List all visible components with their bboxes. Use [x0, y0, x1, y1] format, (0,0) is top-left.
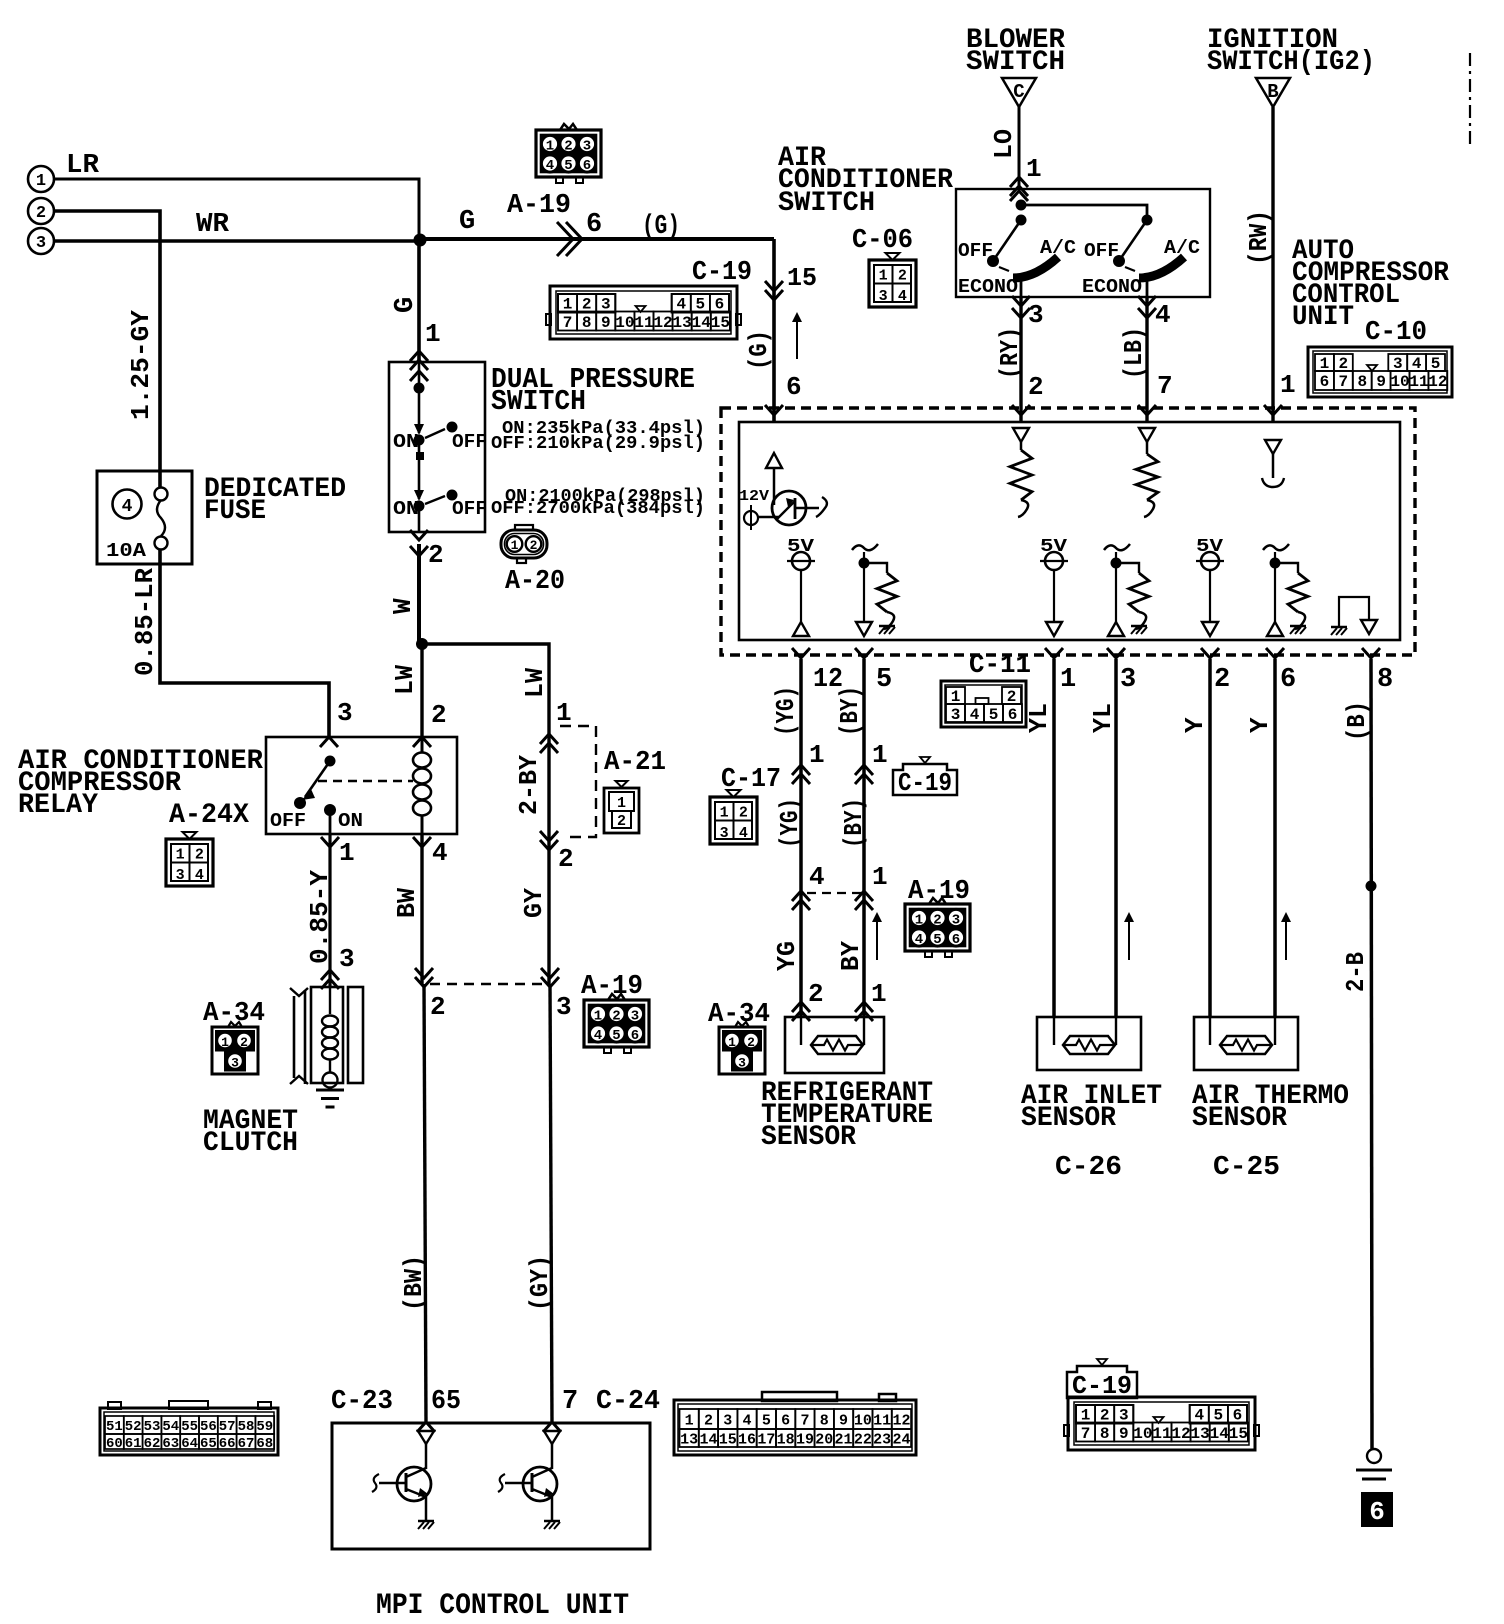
label A-24X	[169, 800, 249, 831]
svg-text:SWITCH: SWITCH	[778, 188, 875, 219]
svg-text:8: 8	[582, 314, 592, 332]
svg-text:52: 52	[125, 1419, 142, 1435]
label A-19 (sensor)	[908, 877, 970, 907]
label 3 (AC switch pin)	[1028, 300, 1044, 330]
label C-25	[1213, 1153, 1280, 1183]
label 0.85-LR (rotated)	[130, 568, 160, 676]
svg-text:1: 1	[176, 847, 185, 864]
label A-19 (mid)	[581, 972, 643, 1002]
ground bracket (pin 8)	[1331, 597, 1377, 635]
label G	[459, 207, 475, 237]
svg-text:(G): (G)	[744, 330, 774, 370]
svg-text:6: 6	[1320, 373, 1330, 391]
wire 0.85-Y relay to magnet clutch	[328, 834, 331, 987]
svg-text:C-24: C-24	[596, 1387, 660, 1417]
svg-text:1: 1	[511, 538, 519, 553]
svg-text:3: 3	[337, 698, 353, 728]
label (BY) upper rotated	[835, 686, 865, 736]
svg-text:(B): (B)	[1342, 701, 1372, 741]
svg-text:2-B: 2-B	[1341, 952, 1371, 992]
label (RW) rotated	[1244, 210, 1274, 265]
DPS middle node	[416, 444, 424, 499]
label 3 (relay pin)	[337, 698, 353, 728]
svg-text:68: 68	[256, 1436, 273, 1452]
DPS switch 1 OFF contact	[447, 422, 488, 454]
wire Y (pin 2 to air thermo sensor)	[1208, 659, 1212, 1017]
svg-text:3: 3	[36, 234, 46, 253]
label 2 (DPS pin)	[428, 540, 444, 570]
wire Y (pin 6 to air thermo sensor)	[1273, 659, 1277, 1017]
svg-text:C-06: C-06	[852, 226, 913, 256]
connector C-11 (6-pin)	[941, 681, 1026, 727]
arrows BW at A-19	[415, 968, 433, 987]
svg-text:3: 3	[556, 992, 572, 1022]
label (YG) upper rotated	[771, 686, 801, 736]
fuse number circle 4	[113, 490, 142, 519]
label ECONO (pole 2)	[1082, 276, 1142, 298]
label 2 (control unit pin)	[1028, 372, 1044, 402]
label C-26	[1055, 1153, 1122, 1183]
svg-text:8: 8	[1357, 373, 1367, 391]
arrows into refrigerant sensor pin 2	[792, 1002, 810, 1021]
label 12 (unit pin)	[813, 665, 843, 695]
svg-text:1: 1	[720, 805, 729, 822]
svg-text:55: 55	[181, 1419, 198, 1435]
svg-text:4: 4	[915, 932, 923, 948]
air conditioner compressor relay box	[266, 737, 457, 834]
label 4 (relay pin)	[432, 838, 448, 868]
svg-text:4: 4	[432, 838, 448, 868]
label 2 (relay coil pin)	[431, 700, 447, 730]
label W (rotated)	[388, 598, 418, 614]
svg-text:(G): (G)	[642, 212, 680, 242]
svg-text:59: 59	[256, 1419, 273, 1435]
connector C-06 (4-pin)	[869, 253, 916, 307]
svg-text:4: 4	[1155, 300, 1171, 330]
svg-text:15: 15	[711, 314, 730, 332]
svg-text:C-10: C-10	[1365, 318, 1427, 348]
svg-text:1: 1	[36, 172, 46, 191]
label REFRIGERANT TEMPERATURE SENSOR	[761, 1078, 933, 1153]
DPS wire to pin 2	[418, 510, 421, 532]
label 65 (MPI pin)	[431, 1387, 461, 1417]
svg-text:LO: LO	[989, 129, 1019, 159]
svg-text:SENSOR: SENSOR	[1192, 1103, 1287, 1134]
label OFF:210kPa	[491, 434, 705, 454]
label 3 (A-19 pin)	[556, 992, 572, 1022]
DPS switch 1 ON contact	[393, 431, 425, 453]
arrow into relay pin 3	[320, 737, 338, 747]
svg-text:23: 23	[873, 1432, 891, 1449]
svg-text:3: 3	[231, 1056, 239, 1071]
svg-text:2: 2	[36, 204, 46, 223]
svg-text:15: 15	[787, 263, 817, 293]
wire (G) to control unit pin 6	[772, 239, 776, 422]
node 1 (battery feed LR)	[28, 166, 54, 192]
svg-text:3: 3	[738, 1056, 746, 1071]
svg-text:2: 2	[428, 540, 444, 570]
AC switch pole 1 output wire	[1020, 278, 1023, 297]
svg-text:2: 2	[564, 139, 572, 155]
arrows A-21 pin 2	[540, 831, 558, 850]
svg-text:66: 66	[219, 1436, 236, 1452]
label C-24	[596, 1387, 660, 1417]
connector C-19 (bottom 15-pin)	[1064, 1397, 1259, 1450]
relay blade with arrow	[302, 761, 330, 800]
label 6 (unit pin)	[1280, 665, 1296, 695]
label 2 (unit pin)	[1214, 665, 1230, 695]
svg-text:65: 65	[431, 1387, 461, 1417]
connector A-19 (top 6-pin)	[536, 124, 601, 183]
svg-text:5: 5	[762, 1413, 771, 1430]
label DEDICATED FUSE	[204, 474, 346, 527]
arrows YG crossing 4	[792, 891, 810, 910]
page link triangle C (blower switch)	[1002, 78, 1036, 107]
svg-text:15: 15	[1229, 1425, 1248, 1443]
label 5 (unit pin)	[876, 665, 892, 695]
svg-text:(RY): (RY)	[995, 327, 1025, 379]
svg-text:24: 24	[892, 1432, 910, 1449]
svg-text:OFF: OFF	[270, 810, 306, 832]
svg-text:6: 6	[1369, 1497, 1385, 1527]
svg-text:5: 5	[876, 665, 892, 695]
signal arrow BY	[872, 912, 882, 960]
svg-text:2: 2	[704, 1413, 713, 1430]
label C-06	[852, 226, 913, 256]
svg-text:SWITCH: SWITCH	[966, 47, 1065, 78]
label 1 (DPS pin)	[425, 319, 441, 349]
wire YL (pin 1 to air inlet sensor)	[1052, 659, 1056, 1017]
arrows into refrigerant sensor pin 1	[855, 1002, 873, 1021]
5V source group (pins 12/5 refrigerant sensor)	[787, 537, 897, 636]
arrows GY at A-19	[541, 968, 559, 987]
arrows AC switch pin 1	[1010, 177, 1028, 201]
svg-text:BY: BY	[836, 941, 866, 971]
arrow out of relay pin 4	[413, 837, 431, 847]
arrow out of unit pin 8	[1362, 648, 1380, 658]
svg-text:1: 1	[221, 1035, 229, 1050]
label G (rotated)	[391, 297, 421, 313]
label C-19 (mid boxed)	[893, 757, 957, 798]
fuse element	[155, 488, 168, 550]
svg-text:7: 7	[1157, 371, 1173, 401]
svg-text:12: 12	[1171, 1425, 1190, 1443]
junction dot on B wire	[1366, 881, 1377, 892]
arrow into unit pin 1	[1264, 405, 1282, 415]
svg-text:10: 10	[615, 314, 634, 332]
svg-text:63: 63	[162, 1436, 179, 1452]
label (RY) rotated	[995, 327, 1025, 379]
svg-text:(RW): (RW)	[1244, 210, 1274, 265]
svg-text:5: 5	[989, 706, 999, 724]
svg-text:6: 6	[786, 372, 802, 402]
svg-text:9: 9	[1119, 1425, 1129, 1443]
unit pin 6 triangle	[766, 453, 782, 505]
svg-text:SWITCH: SWITCH	[491, 385, 586, 418]
label 2 (sensor pin)	[808, 979, 824, 1009]
svg-text:OFF:2700kPa(384psl): OFF:2700kPa(384psl)	[491, 499, 705, 519]
svg-text:2: 2	[431, 700, 447, 730]
svg-text:OFF: OFF	[1084, 240, 1119, 262]
svg-text:58: 58	[238, 1419, 255, 1435]
connector A-20 (oval 2-pin)	[501, 525, 547, 563]
wire RY to control unit	[1019, 297, 1022, 422]
svg-text:1: 1	[1026, 154, 1042, 184]
svg-text:A/C: A/C	[1164, 237, 1200, 259]
arrow into unit pin 6	[765, 405, 783, 415]
label GY (rotated)	[519, 888, 549, 918]
wire LR label	[66, 151, 100, 181]
svg-text:A-24X: A-24X	[169, 800, 249, 831]
wire G down to dual pressure switch pin 1	[417, 239, 421, 362]
svg-text:Y: Y	[1245, 717, 1275, 733]
label IGNITION SWITCH(IG2)	[1207, 25, 1375, 78]
wire 2-BY / GY down to MPI	[549, 726, 552, 1423]
svg-text:10: 10	[854, 1413, 872, 1430]
arrow out of unit pin 12	[792, 648, 810, 658]
svg-text:2: 2	[933, 913, 941, 929]
svg-text:SWITCH(IG2): SWITCH(IG2)	[1207, 47, 1375, 78]
svg-text:1: 1	[1280, 370, 1296, 400]
connector C-24 (24-pin)	[674, 1392, 916, 1455]
svg-text:9: 9	[839, 1413, 848, 1430]
label A-34 (refrigerant)	[708, 1000, 770, 1030]
svg-text:4: 4	[546, 158, 554, 174]
label 7 (control unit pin)	[1157, 371, 1173, 401]
AC switch pole 1 OFF contact	[958, 240, 999, 267]
DPS wire internal	[418, 362, 421, 433]
label 1.25-GY (rotated)	[126, 310, 156, 420]
svg-text:11: 11	[1409, 373, 1428, 391]
svg-text:12: 12	[892, 1413, 910, 1430]
arrow out of unit pin 6	[1266, 648, 1284, 658]
svg-text:3: 3	[1028, 300, 1044, 330]
label BY rotated	[836, 941, 866, 971]
arrow into unit pin 7	[1138, 405, 1156, 415]
MPI pin 7 input triangle	[544, 1431, 560, 1444]
wire YG (pin 12 to refrigerant sensor)	[799, 659, 803, 1017]
AC switch pole 2 ECONO arc	[1139, 257, 1184, 278]
svg-text:2: 2	[530, 538, 538, 553]
svg-text:54: 54	[162, 1419, 179, 1435]
svg-text:19: 19	[796, 1432, 814, 1449]
label 10A	[106, 540, 147, 562]
label 1 (BY crossing)	[872, 740, 888, 770]
page edge dash-dot line	[1469, 53, 1471, 147]
connector A-34 (refrigerant 3-pin)	[719, 1022, 765, 1074]
svg-text:C: C	[1013, 81, 1024, 103]
label 1 (sensor pin)	[871, 979, 887, 1009]
svg-text:8: 8	[820, 1413, 829, 1430]
label OFF:2700kPa	[491, 499, 705, 519]
label LO (rotated)	[989, 129, 1019, 159]
svg-text:SENSOR: SENSOR	[1021, 1103, 1116, 1134]
arrows out of DPS pin 2	[410, 530, 428, 556]
wire blower to AC switch pin 1	[1018, 107, 1021, 189]
connector C-23 (18-pin 51-68)	[100, 1401, 278, 1455]
MPI pin 65 input triangle	[418, 1431, 434, 1444]
label A-19 (top)	[507, 191, 571, 221]
arrows magnet clutch pin 3	[321, 970, 339, 989]
svg-text:2-BY: 2-BY	[514, 755, 544, 815]
label YL rotated (pin3)	[1088, 703, 1118, 733]
svg-text:7: 7	[1339, 373, 1349, 391]
svg-text:16: 16	[738, 1432, 756, 1449]
svg-text:2: 2	[898, 268, 907, 285]
svg-text:6: 6	[631, 1028, 639, 1044]
svg-text:3: 3	[583, 139, 591, 155]
junction dot LW	[416, 638, 428, 650]
svg-text:11: 11	[634, 314, 653, 332]
svg-text:2: 2	[430, 992, 446, 1022]
svg-text:2: 2	[808, 979, 824, 1009]
svg-text:7: 7	[1081, 1425, 1091, 1443]
wire G to connector A-19 crossing	[419, 237, 774, 241]
label 15 (crossing pin)	[787, 263, 817, 293]
AC switch pole 1 ECONO arc	[1013, 257, 1058, 278]
arrows YG crossing 1	[792, 765, 810, 784]
label Y rotated (pin2)	[1180, 717, 1210, 733]
svg-text:(YG): (YG)	[771, 686, 801, 736]
label DUAL PRESSURE SWITCH	[491, 363, 695, 418]
connector A-34 (left 3-pin)	[212, 1022, 258, 1074]
ground number box 6	[1361, 1492, 1393, 1527]
label C-10	[1365, 318, 1427, 348]
wire BY (pin 5 to refrigerant sensor)	[862, 659, 866, 1017]
svg-text:17: 17	[757, 1432, 775, 1449]
svg-text:57: 57	[219, 1419, 236, 1435]
svg-text:Y: Y	[1180, 717, 1210, 733]
svg-text:4: 4	[743, 1413, 752, 1430]
label 1 (YG crossing)	[809, 740, 825, 770]
arrows BY crossing 1	[855, 765, 873, 784]
arrow into MPI pin 65	[417, 1422, 435, 1432]
magnet clutch pulley right	[348, 987, 363, 1083]
arrows AC switch pin 4	[1138, 296, 1156, 318]
AC switch pole 2 OFF contact	[1084, 240, 1125, 267]
svg-text:61: 61	[125, 1436, 142, 1452]
svg-text:5V: 5V	[1040, 537, 1067, 557]
svg-text:RELAY: RELAY	[18, 790, 98, 821]
svg-text:W: W	[388, 598, 418, 614]
svg-text:A-20: A-20	[505, 567, 565, 597]
wire LR from node 1 to junction	[54, 179, 419, 237]
wire LW down to relay coil pin 2	[420, 644, 423, 739]
svg-text:6: 6	[1280, 665, 1296, 695]
svg-text:2: 2	[240, 1035, 248, 1050]
svg-text:4: 4	[970, 706, 980, 724]
svg-text:9: 9	[601, 314, 611, 332]
svg-text:UNIT: UNIT	[1292, 302, 1354, 333]
magnet clutch ground	[316, 1090, 344, 1107]
relay ON contact	[324, 804, 363, 832]
label BLOWER SWITCH	[966, 25, 1065, 78]
DPS switch 2 arrow	[414, 490, 424, 501]
label (B) rotated	[1342, 701, 1372, 741]
svg-text:3: 3	[720, 825, 729, 842]
label 2-BY (rotated)	[514, 755, 544, 815]
svg-text:4: 4	[122, 497, 133, 517]
svg-text:C-11: C-11	[969, 651, 1031, 681]
svg-text:4: 4	[195, 867, 204, 884]
AC switch pole 1 dash	[999, 267, 1009, 271]
svg-text:6: 6	[952, 932, 960, 948]
DPS switch 2 ON contact	[393, 498, 425, 520]
svg-text:1: 1	[594, 1009, 602, 1025]
label C-23	[331, 1387, 393, 1417]
svg-text:SENSOR: SENSOR	[761, 1122, 856, 1153]
svg-text:3: 3	[176, 867, 185, 884]
svg-text:14: 14	[699, 1432, 717, 1449]
svg-text:C-23: C-23	[331, 1387, 393, 1417]
svg-text:CLUTCH: CLUTCH	[203, 1128, 298, 1159]
svg-text:GY: GY	[519, 888, 549, 918]
label 2 (A-21 pin 2)	[558, 844, 574, 874]
ground terminal circle	[1367, 1449, 1381, 1463]
wire W from DPS to junction	[417, 544, 421, 644]
svg-text:2: 2	[747, 1035, 755, 1050]
svg-text:6: 6	[1008, 706, 1018, 724]
svg-text:7: 7	[563, 314, 573, 332]
svg-text:65: 65	[200, 1436, 217, 1452]
svg-text:1: 1	[425, 319, 441, 349]
svg-text:60: 60	[106, 1436, 123, 1452]
connector A-21 (2-pin)	[604, 781, 639, 833]
svg-text:ECONO: ECONO	[958, 276, 1018, 298]
arrow out of unit pin 5	[855, 648, 873, 658]
transistor Q1 (MPI)	[372, 1444, 434, 1529]
svg-text:64: 64	[181, 1436, 198, 1452]
svg-text:1: 1	[915, 913, 923, 929]
svg-text:11: 11	[873, 1413, 891, 1430]
5V source group (pins 2/6 air thermo sensor)	[1196, 537, 1308, 636]
wire WR from node 3 to junction	[54, 237, 419, 241]
label ECONO (pole 1)	[958, 276, 1018, 298]
label 8 (unit pin)	[1377, 665, 1393, 695]
dedicated fuse box	[97, 471, 192, 564]
resistor R1 (pin 2 RY)	[1010, 428, 1032, 517]
svg-text:3: 3	[1120, 665, 1136, 695]
label 1 (AC switch pin)	[1026, 154, 1042, 184]
svg-text:3: 3	[723, 1413, 732, 1430]
label (YG) lower rotated	[775, 798, 805, 848]
svg-text:ECONO: ECONO	[1082, 276, 1142, 298]
label A/C (pole 1)	[1040, 237, 1076, 259]
relay OFF contact	[270, 797, 306, 832]
arrow out of unit pin 1	[1045, 648, 1063, 658]
unit pin 1 input hook	[1262, 440, 1284, 487]
relay dashed link to coil	[318, 780, 413, 783]
svg-text:3: 3	[952, 913, 960, 929]
junction dot G	[414, 234, 427, 247]
page link triangle B (ignition switch)	[1256, 78, 1290, 107]
svg-text:G: G	[391, 297, 421, 313]
svg-text:OFF:210kPa(29.9psl): OFF:210kPa(29.9psl)	[491, 434, 705, 454]
DPS switch 2 OFF contact	[447, 490, 488, 521]
svg-text:OFF: OFF	[958, 240, 993, 262]
label BW (rotated)	[392, 888, 422, 918]
svg-text:8: 8	[1100, 1425, 1110, 1443]
AC switch input dots	[1016, 200, 1027, 226]
wire WR label	[196, 210, 230, 240]
DPS switch 1 arrow	[414, 424, 424, 435]
label 1 (relay pin)	[339, 838, 355, 868]
svg-text:ON: ON	[393, 431, 419, 453]
svg-text:10A: 10A	[106, 540, 147, 562]
svg-text:22: 22	[854, 1432, 872, 1449]
svg-text:1: 1	[872, 740, 888, 770]
magnet clutch terminal circle	[323, 1073, 338, 1088]
